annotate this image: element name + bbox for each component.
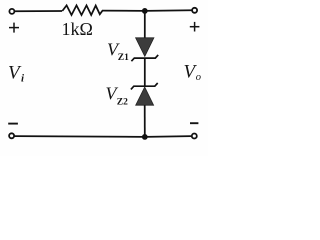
wire node B to bottom-right terminal (145, 135, 192, 138)
wire resistor to node A (102, 10, 145, 12)
wire top-left to resistor (15, 10, 62, 12)
minus sign output (190, 122, 198, 124)
minus sign input (8, 123, 18, 125)
wire bottom-left to node B (14, 135, 145, 138)
svg-text:Z1: Z1 (118, 53, 129, 63)
zener diode VZ1 (cathode down) (131, 38, 158, 61)
node B junction dot (142, 134, 148, 140)
terminal input top-left (9, 9, 14, 14)
terminal input bottom-left (9, 133, 14, 138)
node A junction dot (142, 8, 148, 14)
resistor R 1kOhm zigzag (62, 5, 102, 15)
svg-text:1kΩ: 1kΩ (62, 19, 93, 39)
svg-text:Z2: Z2 (117, 98, 128, 108)
wire zener Z2 to node B (144, 105, 146, 137)
terminal output top-right (192, 8, 197, 13)
terminal output bottom-right (192, 134, 197, 139)
svg-text:o: o (196, 72, 201, 83)
wire node A down to zener Z1 (144, 11, 146, 38)
zener diode VZ2 (cathode up) (131, 83, 158, 105)
wire node A to output terminal (145, 9, 192, 12)
plus sign input (9, 23, 19, 33)
plus sign output (190, 22, 200, 32)
wire between zeners (144, 58, 146, 86)
